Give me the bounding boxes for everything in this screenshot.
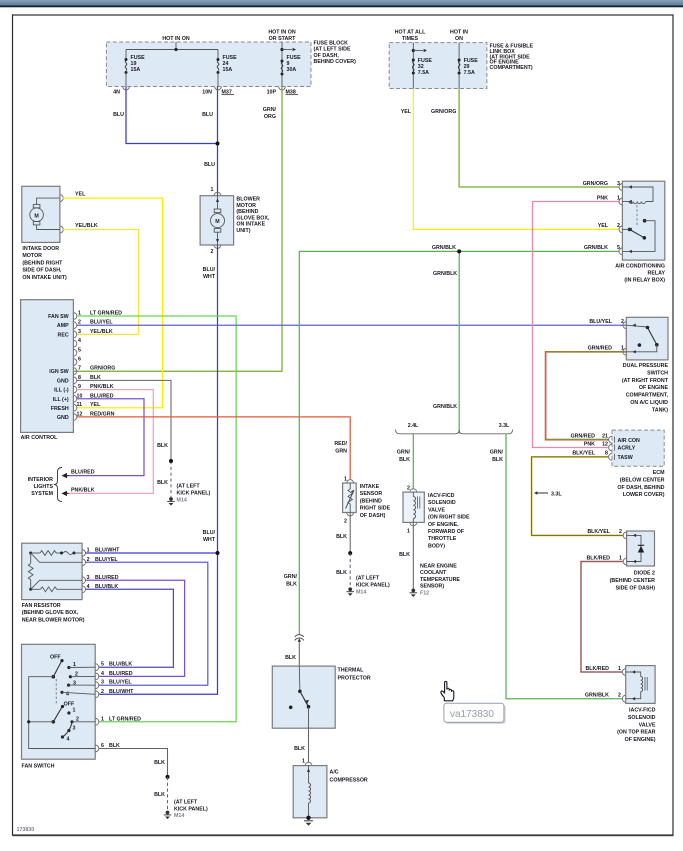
wire BLU/BLK resistor pin4 to fan switch pin5 — [86, 584, 174, 667]
ECM box — [612, 430, 664, 466]
dual pressure switch box — [626, 317, 668, 360]
IACV solenoid (top rear) label — [617, 708, 656, 744]
svg-text:2: 2 — [101, 689, 104, 695]
svg-text:2: 2 — [618, 693, 621, 699]
svg-text:M: M — [215, 219, 220, 225]
svg-text:UNIT): UNIT) — [236, 228, 250, 234]
svg-text:THERMAL: THERMAL — [338, 668, 365, 674]
svg-text:BLK/RED: BLK/RED — [586, 555, 610, 561]
svg-text:3.3L: 3.3L — [499, 423, 510, 429]
ground F12 (near engine coolant temperature sensor) — [410, 564, 461, 598]
svg-text:BLK/YEL: BLK/YEL — [587, 529, 610, 535]
svg-text:AIR CON: AIR CON — [618, 438, 641, 444]
svg-text:BLU/WHT: BLU/WHT — [109, 689, 134, 695]
svg-text:GRN/BLK: GRN/BLK — [432, 245, 456, 251]
IACV-FICD valve label — [428, 493, 470, 549]
fan resistor pin cups — [82, 548, 90, 593]
svg-text:TANK): TANK) — [652, 407, 668, 413]
svg-text:BLK: BLK — [286, 582, 297, 588]
svg-text:1: 1 — [101, 716, 104, 722]
svg-text:ON: ON — [455, 36, 463, 42]
svg-text:GRN/ORG: GRN/ORG — [583, 181, 608, 187]
svg-text:YEL/BLK: YEL/BLK — [75, 223, 98, 229]
svg-text:(AT LEFT: (AT LEFT — [177, 484, 201, 490]
intake door motor M box — [22, 186, 63, 242]
IACV-FICD solenoid valve (2.4L) box — [403, 486, 424, 535]
svg-text:PNK/BLK: PNK/BLK — [71, 488, 95, 494]
wire BLK IACV valve to ground F12 — [399, 522, 413, 588]
air control pin cups 1-12 — [73, 311, 82, 421]
svg-text:(AT LEFT: (AT LEFT — [174, 800, 198, 806]
svg-text:BLU/RED: BLU/RED — [95, 575, 119, 581]
svg-text:BLK: BLK — [336, 534, 347, 540]
svg-text:1: 1 — [618, 666, 621, 672]
3.3L pointer on BLK/YEL — [534, 491, 562, 497]
fan switch pin cups — [95, 662, 141, 752]
fuse & fusible link box label — [490, 44, 534, 72]
fuse block label — [314, 41, 357, 66]
relay wire labels — [583, 181, 620, 251]
svg-text:1: 1 — [302, 759, 305, 765]
wire BLU/YEL resistor pin2 to fan switch pin3 — [86, 557, 208, 685]
svg-text:BLK: BLK — [336, 570, 347, 576]
svg-text:COOLANT: COOLANT — [420, 570, 447, 576]
ECM label — [617, 470, 665, 498]
svg-text:INTERIOR: INTERIOR — [28, 477, 53, 483]
svg-text:BLU/YEL: BLU/YEL — [109, 680, 132, 686]
svg-text:(ON TOP REAR: (ON TOP REAR — [617, 730, 656, 736]
svg-text:2: 2 — [621, 319, 624, 325]
svg-text:BLU/YEL: BLU/YEL — [589, 319, 612, 325]
ground M14 (fan switch) — [164, 800, 208, 820]
svg-text:BLK: BLK — [492, 457, 503, 463]
wire YEL from fuse 32 — [401, 89, 619, 230]
svg-text:FAN SW: FAN SW — [48, 314, 69, 320]
svg-text:BLU/: BLU/ — [203, 530, 216, 536]
svg-text:YEL/BLK: YEL/BLK — [90, 329, 113, 335]
svg-text:KICK PANEL): KICK PANEL) — [356, 583, 390, 589]
svg-text:YEL: YEL — [90, 402, 101, 408]
svg-text:SWITCH: SWITCH — [647, 370, 668, 376]
fuse & fusible link box (right) — [389, 43, 487, 89]
svg-text:IGN SW: IGN SW — [49, 369, 68, 375]
svg-text:AIR CONDITIONING: AIR CONDITIONING — [615, 264, 665, 270]
svg-text:GRN/BLK: GRN/BLK — [584, 245, 608, 251]
svg-text:BLU: BLU — [113, 112, 124, 118]
svg-text:(BEHIND RIGHT: (BEHIND RIGHT — [22, 260, 63, 266]
svg-text:BLU: BLU — [202, 112, 213, 118]
wire GRN/BLK relay pin5 to thermal protector and bracket — [284, 245, 619, 635]
svg-text:BLK: BLK — [285, 655, 296, 661]
svg-text:7.5A: 7.5A — [464, 70, 475, 76]
svg-text:A/C: A/C — [330, 770, 339, 776]
svg-text:COMPRESSOR: COMPRESSOR — [330, 778, 368, 784]
svg-text:1: 1 — [621, 346, 624, 352]
svg-text:7.5A: 7.5A — [418, 70, 429, 76]
svg-text:va173830: va173830 — [450, 709, 494, 720]
svg-text:YEL: YEL — [75, 192, 86, 198]
svg-text:173830: 173830 — [17, 827, 35, 833]
svg-text:2: 2 — [344, 519, 347, 525]
top browser header bar — [0, 0, 683, 6]
fan resistor label — [22, 603, 85, 623]
wire GRN/BLK 2.4L branch to IACV-FICD valve — [397, 434, 414, 489]
svg-text:GRN/RED: GRN/RED — [571, 433, 596, 439]
svg-text:REC: REC — [58, 332, 69, 338]
svg-text:4N: 4N — [113, 90, 120, 96]
wire GRN/ORG from 10P — [73, 87, 282, 372]
svg-text:TEMPERATURE: TEMPERATURE — [420, 577, 460, 583]
fuse block (left, at left side of dash) — [106, 42, 311, 87]
svg-text:10N: 10N — [202, 90, 212, 96]
svg-text:GND: GND — [57, 378, 69, 384]
svg-text:GRN/BLK: GRN/BLK — [585, 693, 609, 699]
air control unit box — [21, 300, 74, 433]
air conditioning relay label — [615, 264, 665, 284]
svg-text:(BELOW CENTER: (BELOW CENTER — [620, 477, 665, 483]
svg-text:OF ENGINE: OF ENGINE — [639, 385, 669, 391]
fuse 32 7.5A — [412, 58, 433, 76]
A/C compressor box — [293, 759, 327, 826]
wire YEL intake door motor to pin 11 — [63, 192, 163, 408]
svg-text:4: 4 — [101, 671, 104, 677]
wire PNK relay pin1 to ECM pin 12 — [533, 202, 620, 448]
fuse 19 15A — [125, 50, 146, 87]
svg-text:FAN RESISTOR: FAN RESISTOR — [22, 603, 61, 609]
wire BLU/RED resistor pin3 to fan switch pin4 — [86, 575, 185, 677]
node HOT IN ON OR START — [268, 30, 296, 87]
wire BLK intake sensor to ground — [336, 513, 352, 588]
svg-text:11: 11 — [77, 402, 83, 408]
wire BLU/RED pin10 to interior lights — [66, 399, 144, 476]
svg-text:BLK: BLK — [399, 552, 410, 558]
svg-text:COMPARTMENT): COMPARTMENT) — [490, 65, 533, 71]
wire YEL/BLK intake door motor to pin 3 — [63, 223, 139, 334]
svg-text:IACV-FICD: IACV-FICD — [629, 708, 656, 714]
svg-text:HOT AT ALL: HOT AT ALL — [395, 30, 426, 36]
wire BLU/YEL pin2 to dual pressure switch — [77, 324, 627, 326]
svg-text:2: 2 — [619, 529, 622, 535]
svg-text:INTAKE: INTAKE — [360, 484, 380, 490]
ground M14 (intake sensor) — [346, 576, 390, 596]
relay pin cups — [619, 184, 632, 255]
svg-text:GRN/ORG: GRN/ORG — [431, 109, 456, 115]
svg-text:OFF: OFF — [50, 655, 61, 661]
intake door motor label — [22, 246, 67, 281]
wire BLK to thermal protector — [285, 638, 301, 666]
pin wire name labels — [90, 311, 122, 418]
wire BLU/WHT from blower pin 2 — [99, 245, 218, 694]
svg-text:PROTECTOR: PROTECTOR — [338, 676, 371, 682]
ECM pin cups — [571, 433, 615, 460]
svg-text:BLK: BLK — [157, 480, 168, 486]
svg-text:BLU/RED: BLU/RED — [109, 671, 133, 677]
wire LT GRN/RED pin1 to fan switch pin1 — [77, 316, 236, 722]
svg-text:VALVE: VALVE — [428, 507, 445, 513]
wire BLK pin8 to ground — [77, 380, 173, 497]
wire BLU from 4N — [113, 87, 215, 144]
svg-text:AMP: AMP — [57, 323, 69, 329]
svg-text:(BEHIND: (BEHIND — [360, 498, 382, 504]
svg-text:LOWER COVER): LOWER COVER) — [623, 492, 665, 498]
thermal protector label — [338, 668, 371, 682]
svg-text:FRESH: FRESH — [51, 406, 69, 412]
svg-text:GRN/: GRN/ — [397, 450, 411, 456]
svg-text:2: 2 — [407, 486, 410, 492]
svg-text:SIDE OF DASH,: SIDE OF DASH, — [22, 268, 62, 274]
svg-text:SENSOR): SENSOR) — [420, 584, 444, 590]
wire BLK/YEL ECM pin 8 to diode 2 — [532, 457, 624, 536]
svg-text:ECM: ECM — [653, 470, 665, 476]
svg-text:2: 2 — [617, 223, 620, 229]
svg-text:(BEHIND GLOVE BOX,: (BEHIND GLOVE BOX, — [22, 610, 79, 616]
svg-text:BEHIND COVER): BEHIND COVER) — [314, 59, 357, 65]
A/C compressor label — [330, 770, 368, 784]
svg-text:ILL (+): ILL (+) — [53, 397, 69, 403]
diode 2 pin cups — [586, 529, 636, 565]
svg-text:LT GRN/RED: LT GRN/RED — [109, 716, 141, 722]
connector 10P M38 — [267, 87, 298, 96]
svg-text:M14: M14 — [174, 813, 184, 819]
svg-text:ON INTAKE: ON INTAKE — [236, 222, 265, 228]
svg-text:YEL: YEL — [598, 223, 609, 229]
svg-text:BLK: BLK — [399, 457, 410, 463]
connector pin 2 blower — [211, 245, 221, 255]
blower motor label — [236, 197, 269, 235]
IACV-FICD solenoid valve (3.3L) box — [626, 666, 655, 704]
svg-text:6: 6 — [78, 357, 81, 363]
inline connector on GRN/BLK — [295, 635, 304, 641]
svg-text:ACRLY: ACRLY — [618, 446, 636, 452]
svg-text:DUAL PRESSURE: DUAL PRESSURE — [623, 363, 669, 369]
interior lights brace — [54, 468, 62, 502]
svg-text:1: 1 — [344, 477, 347, 483]
wire GRN/ORG from fuse 29 — [431, 89, 619, 188]
svg-text:3: 3 — [78, 329, 81, 335]
svg-text:(AT LEFT SIDE: (AT LEFT SIDE — [314, 47, 351, 53]
svg-text:MOTOR: MOTOR — [22, 253, 42, 259]
svg-text:3: 3 — [617, 181, 620, 187]
dual pressure pin cups — [588, 319, 636, 355]
svg-text:BLK: BLK — [294, 746, 305, 752]
svg-text:SYSTEM: SYSTEM — [31, 491, 53, 497]
svg-text:OF ENGINE,: OF ENGINE, — [428, 522, 459, 528]
svg-text:(ON RIGHT SIDE: (ON RIGHT SIDE — [428, 515, 470, 521]
svg-text:BLK: BLK — [154, 792, 165, 798]
svg-text:VALVE: VALVE — [639, 722, 656, 728]
svg-text:BLU/BLK: BLU/BLK — [95, 584, 118, 590]
svg-text:10P: 10P — [267, 90, 277, 96]
svg-text:M14: M14 — [177, 498, 187, 504]
svg-text:8: 8 — [605, 451, 608, 457]
svg-text:(AT LEFT: (AT LEFT — [356, 576, 380, 582]
node junction BLU — [216, 142, 220, 146]
svg-text:OR START: OR START — [269, 36, 296, 42]
diode 2 box — [627, 531, 655, 566]
svg-text:THROTTLE: THROTTLE — [428, 536, 457, 542]
svg-text:M14: M14 — [356, 590, 366, 596]
IACV solenoid pin cups — [585, 666, 635, 702]
wire BLU/WHT resistor pin1 — [86, 548, 220, 556]
fuse 29 7.5A — [458, 58, 479, 76]
svg-text:GRN/BLK: GRN/BLK — [433, 404, 457, 410]
thermal protector box — [272, 666, 335, 728]
intake sensor box — [343, 477, 357, 525]
svg-text:15A: 15A — [131, 67, 141, 73]
svg-text:NEAR BLOWER MOTOR): NEAR BLOWER MOTOR) — [22, 617, 85, 623]
svg-text:TASW: TASW — [618, 455, 633, 461]
svg-text:(AT RIGHT FRONT: (AT RIGHT FRONT — [622, 378, 669, 384]
svg-text:3: 3 — [73, 726, 76, 732]
svg-text:KICK PANEL): KICK PANEL) — [174, 807, 208, 813]
svg-text:1: 1 — [407, 529, 410, 535]
svg-text:PNK: PNK — [584, 441, 595, 447]
dual pressure switch label — [622, 363, 669, 413]
wire BLU from 10N — [202, 87, 217, 197]
svg-text:BODY): BODY) — [428, 543, 445, 549]
svg-text:FUSE BLOCK: FUSE BLOCK — [314, 41, 349, 47]
svg-text:5: 5 — [617, 245, 620, 251]
svg-text:BLU/WHT: BLU/WHT — [95, 548, 120, 554]
svg-text:FORWARD OF: FORWARD OF — [428, 529, 465, 535]
svg-text:AIR CONTROL: AIR CONTROL — [21, 435, 59, 441]
intake sensor label — [360, 484, 391, 519]
svg-text:30A: 30A — [287, 67, 297, 73]
svg-text:ORG: ORG — [264, 114, 276, 120]
svg-text:(IN RELAY BOX): (IN RELAY BOX) — [624, 278, 665, 284]
svg-text:OF DASH,: OF DASH, — [314, 53, 340, 59]
svg-text:HOT IN: HOT IN — [450, 30, 468, 36]
fan switch box — [22, 644, 96, 759]
svg-text:BLU/RED: BLU/RED — [71, 470, 95, 476]
svg-text:RELAY: RELAY — [648, 271, 666, 277]
diode 2 label — [610, 571, 656, 592]
svg-text:GRN/BLK: GRN/BLK — [433, 271, 457, 277]
fuse 24 15A — [217, 50, 238, 87]
svg-text:OF DASH, BEHIND: OF DASH, BEHIND — [617, 485, 664, 491]
air conditioning relay box — [622, 181, 664, 260]
svg-text:BLU: BLU — [204, 162, 215, 168]
svg-text:5: 5 — [101, 662, 104, 668]
svg-text:7: 7 — [78, 366, 81, 372]
svg-text:BLU/BLK: BLU/BLK — [109, 662, 132, 668]
svg-text:GRN/RED: GRN/RED — [588, 346, 613, 352]
svg-text:WHT: WHT — [203, 537, 216, 543]
svg-text:RED/: RED/ — [334, 441, 347, 447]
svg-text:M: M — [34, 213, 39, 219]
svg-text:2: 2 — [211, 249, 214, 255]
svg-text:21: 21 — [602, 433, 608, 439]
svg-text:1: 1 — [73, 708, 76, 714]
svg-text:KICK PANEL): KICK PANEL) — [177, 491, 211, 497]
svg-text:HOT IN ON: HOT IN ON — [162, 36, 190, 42]
svg-text:OF ENGINE): OF ENGINE) — [625, 737, 656, 743]
svg-text:BLK: BLK — [154, 760, 165, 766]
node HOT AT ALL TIMES — [395, 30, 427, 89]
svg-text:FAN SWITCH: FAN SWITCH — [22, 764, 55, 770]
wire BLK thermal protector to compressor — [294, 728, 308, 762]
svg-text:LIGHTS: LIGHTS — [34, 484, 54, 490]
svg-text:3: 3 — [101, 680, 104, 686]
svg-text:ON A/C LIQUID: ON A/C LIQUID — [630, 400, 668, 406]
fuse 9 30A — [281, 55, 302, 76]
svg-text:BLU/YEL: BLU/YEL — [95, 557, 118, 563]
node HOT IN ON (left fuse block) — [126, 36, 218, 51]
svg-text:INTAKE DOOR: INTAKE DOOR — [22, 246, 59, 252]
svg-text:3: 3 — [73, 681, 76, 687]
svg-text:IACV-FICD: IACV-FICD — [428, 493, 455, 499]
svg-text:ON INTAKE UNIT): ON INTAKE UNIT) — [22, 275, 67, 281]
fan resistor box — [22, 543, 82, 599]
svg-text:BLOWER: BLOWER — [236, 197, 260, 203]
wire GRN/RED dual pressure to ECM pin 21 — [546, 352, 627, 440]
svg-text:WHT: WHT — [203, 274, 216, 280]
svg-text:1: 1 — [617, 195, 620, 201]
svg-text:3.3L: 3.3L — [551, 491, 562, 497]
interior lights system arrows — [62, 470, 95, 479]
svg-text:F12: F12 — [420, 590, 429, 596]
mouse cursor — [441, 681, 454, 700]
svg-text:ILL (-): ILL (-) — [54, 388, 69, 394]
connector 4N — [113, 87, 129, 96]
node HOT IN ON (right box) — [450, 30, 468, 89]
svg-text:12: 12 — [602, 441, 608, 447]
engine split bracket 2.4L / 3.3L — [396, 423, 513, 434]
svg-text:1: 1 — [211, 187, 214, 193]
svg-text:2.4L: 2.4L — [408, 423, 419, 429]
svg-text:GRN: GRN — [335, 449, 347, 455]
blower motor U1 box — [200, 196, 234, 245]
svg-text:MOTOR: MOTOR — [236, 203, 256, 209]
svg-text:GRN/: GRN/ — [263, 107, 277, 113]
svg-text:SOLENOID: SOLENOID — [428, 500, 456, 506]
svg-text:HOT IN ON: HOT IN ON — [268, 30, 296, 36]
svg-text:BLK: BLK — [157, 443, 168, 449]
interior lights label — [28, 477, 54, 497]
svg-text:GRN/: GRN/ — [490, 450, 504, 456]
svg-text:4: 4 — [67, 737, 70, 743]
connector pin 1 blower — [211, 187, 221, 196]
svg-text:4: 4 — [78, 338, 81, 344]
svg-text:COMPARTMENT,: COMPARTMENT, — [626, 393, 669, 399]
wire GRN/BLK 3.3L branch to IACV-FICD solenoid (top rear) — [490, 434, 623, 699]
svg-text:GRN/ORG: GRN/ORG — [90, 366, 115, 372]
svg-text:GLOVE BOX,: GLOVE BOX, — [236, 215, 269, 221]
svg-text:SIDE OF DASH): SIDE OF DASH) — [616, 585, 656, 591]
wire BLK fan switch pin6 to ground — [99, 749, 170, 811]
svg-text:OF DASH): OF DASH) — [360, 513, 386, 519]
svg-text:5: 5 — [78, 347, 81, 353]
svg-text:GND: GND — [57, 415, 69, 421]
svg-text:DIODE 2: DIODE 2 — [634, 571, 655, 577]
svg-text:SENSOR: SENSOR — [360, 491, 383, 497]
svg-text:1: 1 — [619, 555, 622, 561]
svg-text:NEAR ENGINE: NEAR ENGINE — [420, 564, 457, 570]
svg-text:RIGHT SIDE: RIGHT SIDE — [360, 506, 391, 512]
svg-text:YEL: YEL — [401, 109, 412, 115]
svg-text:SOLENOID: SOLENOID — [628, 715, 656, 721]
wire PNK/BLK pin9 to interior lights — [66, 390, 153, 494]
tooltip va173830 — [444, 703, 506, 724]
svg-text:BLK/YEL: BLK/YEL — [572, 451, 595, 457]
ground M14 (air control) — [167, 484, 210, 506]
svg-text:GRN/: GRN/ — [284, 574, 298, 580]
connector 10N M37 — [202, 87, 234, 96]
svg-text:PNK: PNK — [597, 195, 608, 201]
svg-text:15A: 15A — [223, 67, 233, 73]
svg-text:BLK/RED: BLK/RED — [585, 666, 609, 672]
svg-text:(BEHIND: (BEHIND — [236, 209, 258, 215]
